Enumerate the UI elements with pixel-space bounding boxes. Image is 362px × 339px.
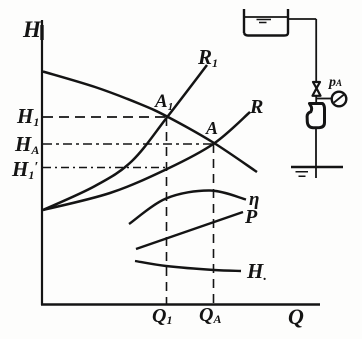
dashed level line H1 bbox=[43, 116, 166, 118]
discharge pipe horizontal bbox=[288, 18, 316, 20]
system curve R bbox=[43, 112, 250, 210]
svg-text:R: R bbox=[249, 96, 263, 118]
power curve P bbox=[136, 212, 243, 249]
gauge needle bbox=[334, 95, 344, 103]
tank left wall bbox=[243, 9, 245, 33]
svg-text:Q: Q bbox=[288, 304, 304, 329]
NPSH curve H. bbox=[135, 261, 241, 271]
gauge connector line bbox=[317, 98, 332, 100]
tank water level line bbox=[245, 16, 287, 18]
system curve R1 (throttled) bbox=[43, 65, 207, 210]
discharge pipe vertical bbox=[315, 19, 317, 81]
dashed level line H1' bbox=[43, 167, 166, 169]
tank water level marks bbox=[257, 20, 272, 23]
tank right wall bbox=[287, 9, 289, 33]
tank bottom bbox=[244, 33, 288, 36]
pipe valve to pump bbox=[315, 96, 317, 103]
sump water surface line bbox=[291, 166, 343, 168]
svg-text:H: H bbox=[22, 17, 42, 42]
y-axis (H axis) bbox=[41, 20, 43, 305]
svg-text:A: A bbox=[205, 118, 218, 138]
pressure gauge circle bbox=[332, 92, 347, 107]
vertical dashed line QA bbox=[213, 144, 215, 304]
suction pipe below pump bbox=[315, 129, 317, 179]
svg-text:pA: pA bbox=[328, 75, 342, 90]
x-axis (Q axis) bbox=[41, 303, 320, 305]
sump water marks bbox=[296, 172, 309, 177]
svg-text:H1′: H1′ bbox=[11, 157, 38, 182]
svg-text:P: P bbox=[244, 206, 258, 228]
pump head curve H-Q bbox=[43, 72, 257, 173]
vertical dashed line Q1 bbox=[166, 117, 168, 304]
pump body bbox=[307, 104, 324, 128]
dashed level line HA bbox=[43, 143, 213, 145]
efficiency curve eta bbox=[129, 190, 246, 224]
valve symbol bbox=[313, 82, 321, 96]
